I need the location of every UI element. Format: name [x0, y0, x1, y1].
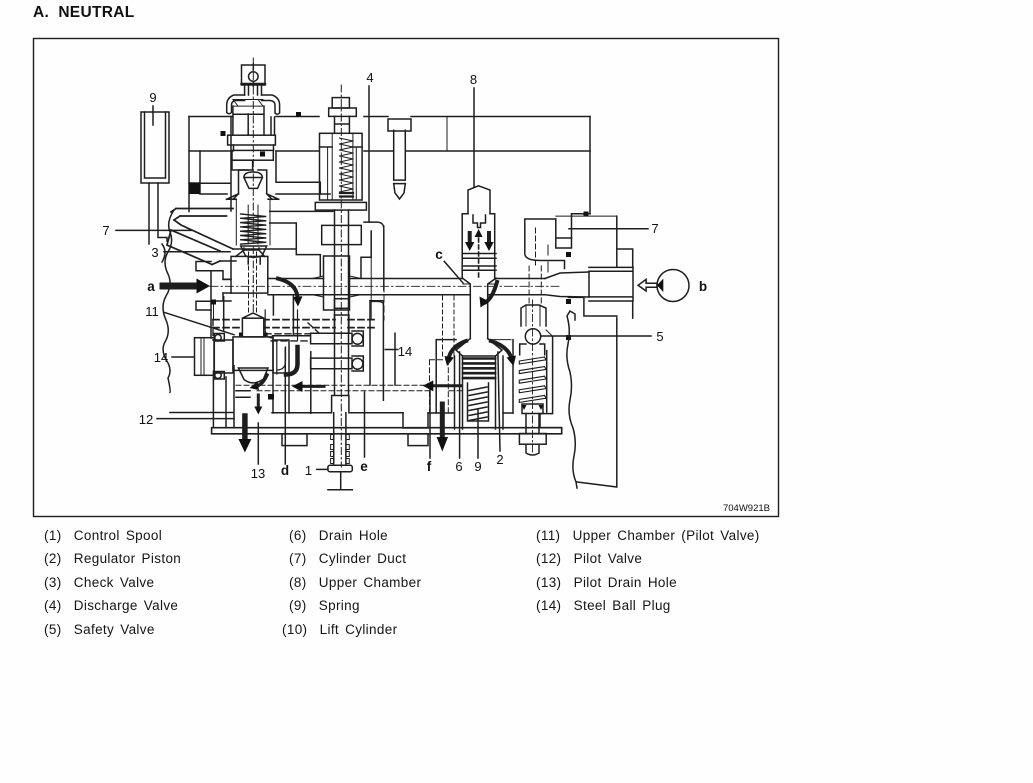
svg-text:4: 4	[366, 70, 373, 85]
pump arrow solid triangle	[657, 279, 663, 292]
svg-text:13: 13	[251, 466, 265, 481]
svg-text:12: 12	[139, 412, 153, 427]
svg-text:11: 11	[145, 304, 159, 319]
left arrows on drain line	[302, 385, 324, 388]
seal dots right	[584, 212, 589, 217]
flow arrow after spool	[278, 279, 298, 297]
rail upper with steel ball	[311, 331, 364, 346]
svg-text:d: d	[281, 463, 289, 478]
svg-text:14: 14	[154, 350, 168, 365]
check valve 3 : body	[233, 106, 275, 135]
housing second band line	[189, 150, 590, 152]
dashed drain lines lower	[236, 385, 462, 390]
duct lines right of check valve	[270, 211, 333, 276]
svg-text:9: 9	[149, 90, 156, 105]
poppet seat seals	[239, 333, 243, 338]
discharge valve 4 : base band	[315, 202, 366, 210]
small drain arrow 12	[257, 395, 260, 407]
base plate	[212, 428, 562, 434]
valve 8 : center dashed with up arrow	[478, 238, 480, 280]
reservoir outline	[577, 318, 617, 487]
svg-text:3: 3	[151, 245, 158, 260]
regulator spring 9	[469, 387, 487, 421]
flow arrows into chamber	[449, 341, 466, 357]
tabs under plate	[282, 434, 307, 446]
spring 9 tank symbol	[141, 112, 169, 183]
wire: main channel bottom line	[223, 293, 545, 295]
housing bottom edges	[170, 396, 513, 414]
check valve 3 : poppet dome	[244, 172, 263, 188]
svg-text:2: 2	[496, 452, 503, 467]
svg-text:f: f	[427, 459, 432, 474]
discharge valve 4 : axis centerline	[340, 85, 342, 467]
steel ball plug block 14 left	[195, 338, 215, 376]
discharge valve 4 : spring	[340, 138, 354, 192]
flow arrow below valve 8	[484, 282, 497, 303]
thick J flow line	[286, 347, 298, 375]
check valve 3 : sleeve walls	[239, 170, 267, 194]
housing seam	[446, 117, 448, 152]
valve 8 : bottom taper and duct walls	[463, 278, 496, 338]
svg-text:5: 5	[656, 329, 663, 344]
svg-text:b: b	[699, 279, 707, 294]
bolt	[388, 119, 411, 131]
safety valve 5 : spring	[519, 357, 546, 402]
check valve 3 : cap	[242, 65, 266, 85]
check valve 3 : lower retainer	[241, 246, 267, 264]
left break line (wavy)	[163, 210, 174, 393]
pump circle b	[657, 270, 689, 302]
svg-text:8: 8	[470, 72, 477, 87]
safety valve 5 : hex plug	[521, 305, 546, 326]
seal dot	[268, 394, 274, 400]
housing left vertical	[188, 117, 190, 212]
border frame	[34, 39, 779, 517]
bars below bowl	[236, 391, 250, 398]
dashed passage to safety valve	[535, 228, 537, 265]
svg-text:7: 7	[651, 221, 658, 236]
discharge valve 4 : body	[320, 133, 363, 200]
check valve 3 : flare seat	[227, 194, 279, 200]
svg-text:14: 14	[398, 344, 412, 359]
valve 8 : body	[462, 214, 495, 278]
regulator outer walls	[455, 356, 504, 429]
port throat	[545, 272, 589, 297]
control spool land (1)	[231, 256, 268, 293]
svg-text:9: 9	[474, 459, 481, 474]
pilot poppet	[242, 313, 263, 318]
throat at discharge spool	[313, 276, 362, 297]
seal dot top	[260, 152, 265, 157]
wire: main pressure channel top line	[223, 278, 545, 281]
cylinder duct lines left	[171, 209, 233, 221]
check valve 3 : spring	[241, 214, 266, 244]
svg-text:704W921B: 704W921B	[723, 503, 770, 514]
svg-text:e: e	[360, 459, 368, 474]
check valve 3 : flange band	[228, 135, 276, 145]
channel left end wall	[211, 271, 231, 301]
svg-text:a: a	[147, 279, 155, 294]
pilot seat bowl	[238, 368, 268, 383]
pump arrow (open)	[638, 279, 657, 291]
check valve 3 : crown flange	[227, 95, 245, 114]
safety valve 5 : ball	[525, 329, 540, 344]
svg-text:6: 6	[455, 459, 462, 474]
pilot valve body	[233, 337, 273, 371]
chamber flare below duct 8	[456, 339, 502, 356]
valve 8 : plates	[463, 254, 496, 271]
housing verticals mid	[311, 301, 395, 414]
dashed pilot lines upper	[213, 320, 376, 328]
pilot chamber walls	[213, 366, 234, 428]
channel dash-dot centerline	[210, 285, 560, 287]
valve 8 : two down arrows	[470, 233, 489, 243]
bowl flow arrow	[257, 375, 267, 386]
right band lines	[276, 151, 330, 194]
port body top/bottom double lines	[589, 267, 633, 301]
rail lower with steel ball	[311, 356, 364, 371]
lower step below port	[568, 249, 632, 318]
safety valve chamber walls	[513, 336, 561, 427]
pin seal above poppet	[211, 300, 216, 305]
discharge valve 4 : spool column	[335, 210, 349, 395]
lift cylinder (1)	[334, 413, 346, 466]
drain passage dashes below channel	[443, 296, 455, 358]
svg-text:7: 7	[102, 223, 109, 238]
svg-text:c: c	[435, 247, 443, 262]
spool land (4) across channel	[324, 256, 350, 310]
housing top edge	[189, 116, 590, 118]
pilot stem dashed lines	[249, 252, 257, 316]
housing right vertical	[589, 117, 591, 214]
svg-text:1: 1	[305, 463, 312, 478]
discharge valve 4 : top nut	[332, 98, 349, 108]
big pilot drain arrow 13	[242, 416, 248, 440]
cylinder duct 7 right	[525, 214, 590, 269]
valve 8 : top cap	[468, 186, 490, 214]
left block inner lines	[189, 117, 231, 212]
seal black rect left	[189, 182, 200, 194]
axis centerline (dash-dot)	[252, 58, 254, 312]
dashed drain box f	[430, 360, 449, 414]
duct corner right of bolt	[364, 222, 384, 290]
safety valve 5 : retainer + bolt	[522, 404, 543, 414]
regulator inner spring box	[468, 383, 489, 421]
regulator piston rings	[463, 357, 495, 360]
